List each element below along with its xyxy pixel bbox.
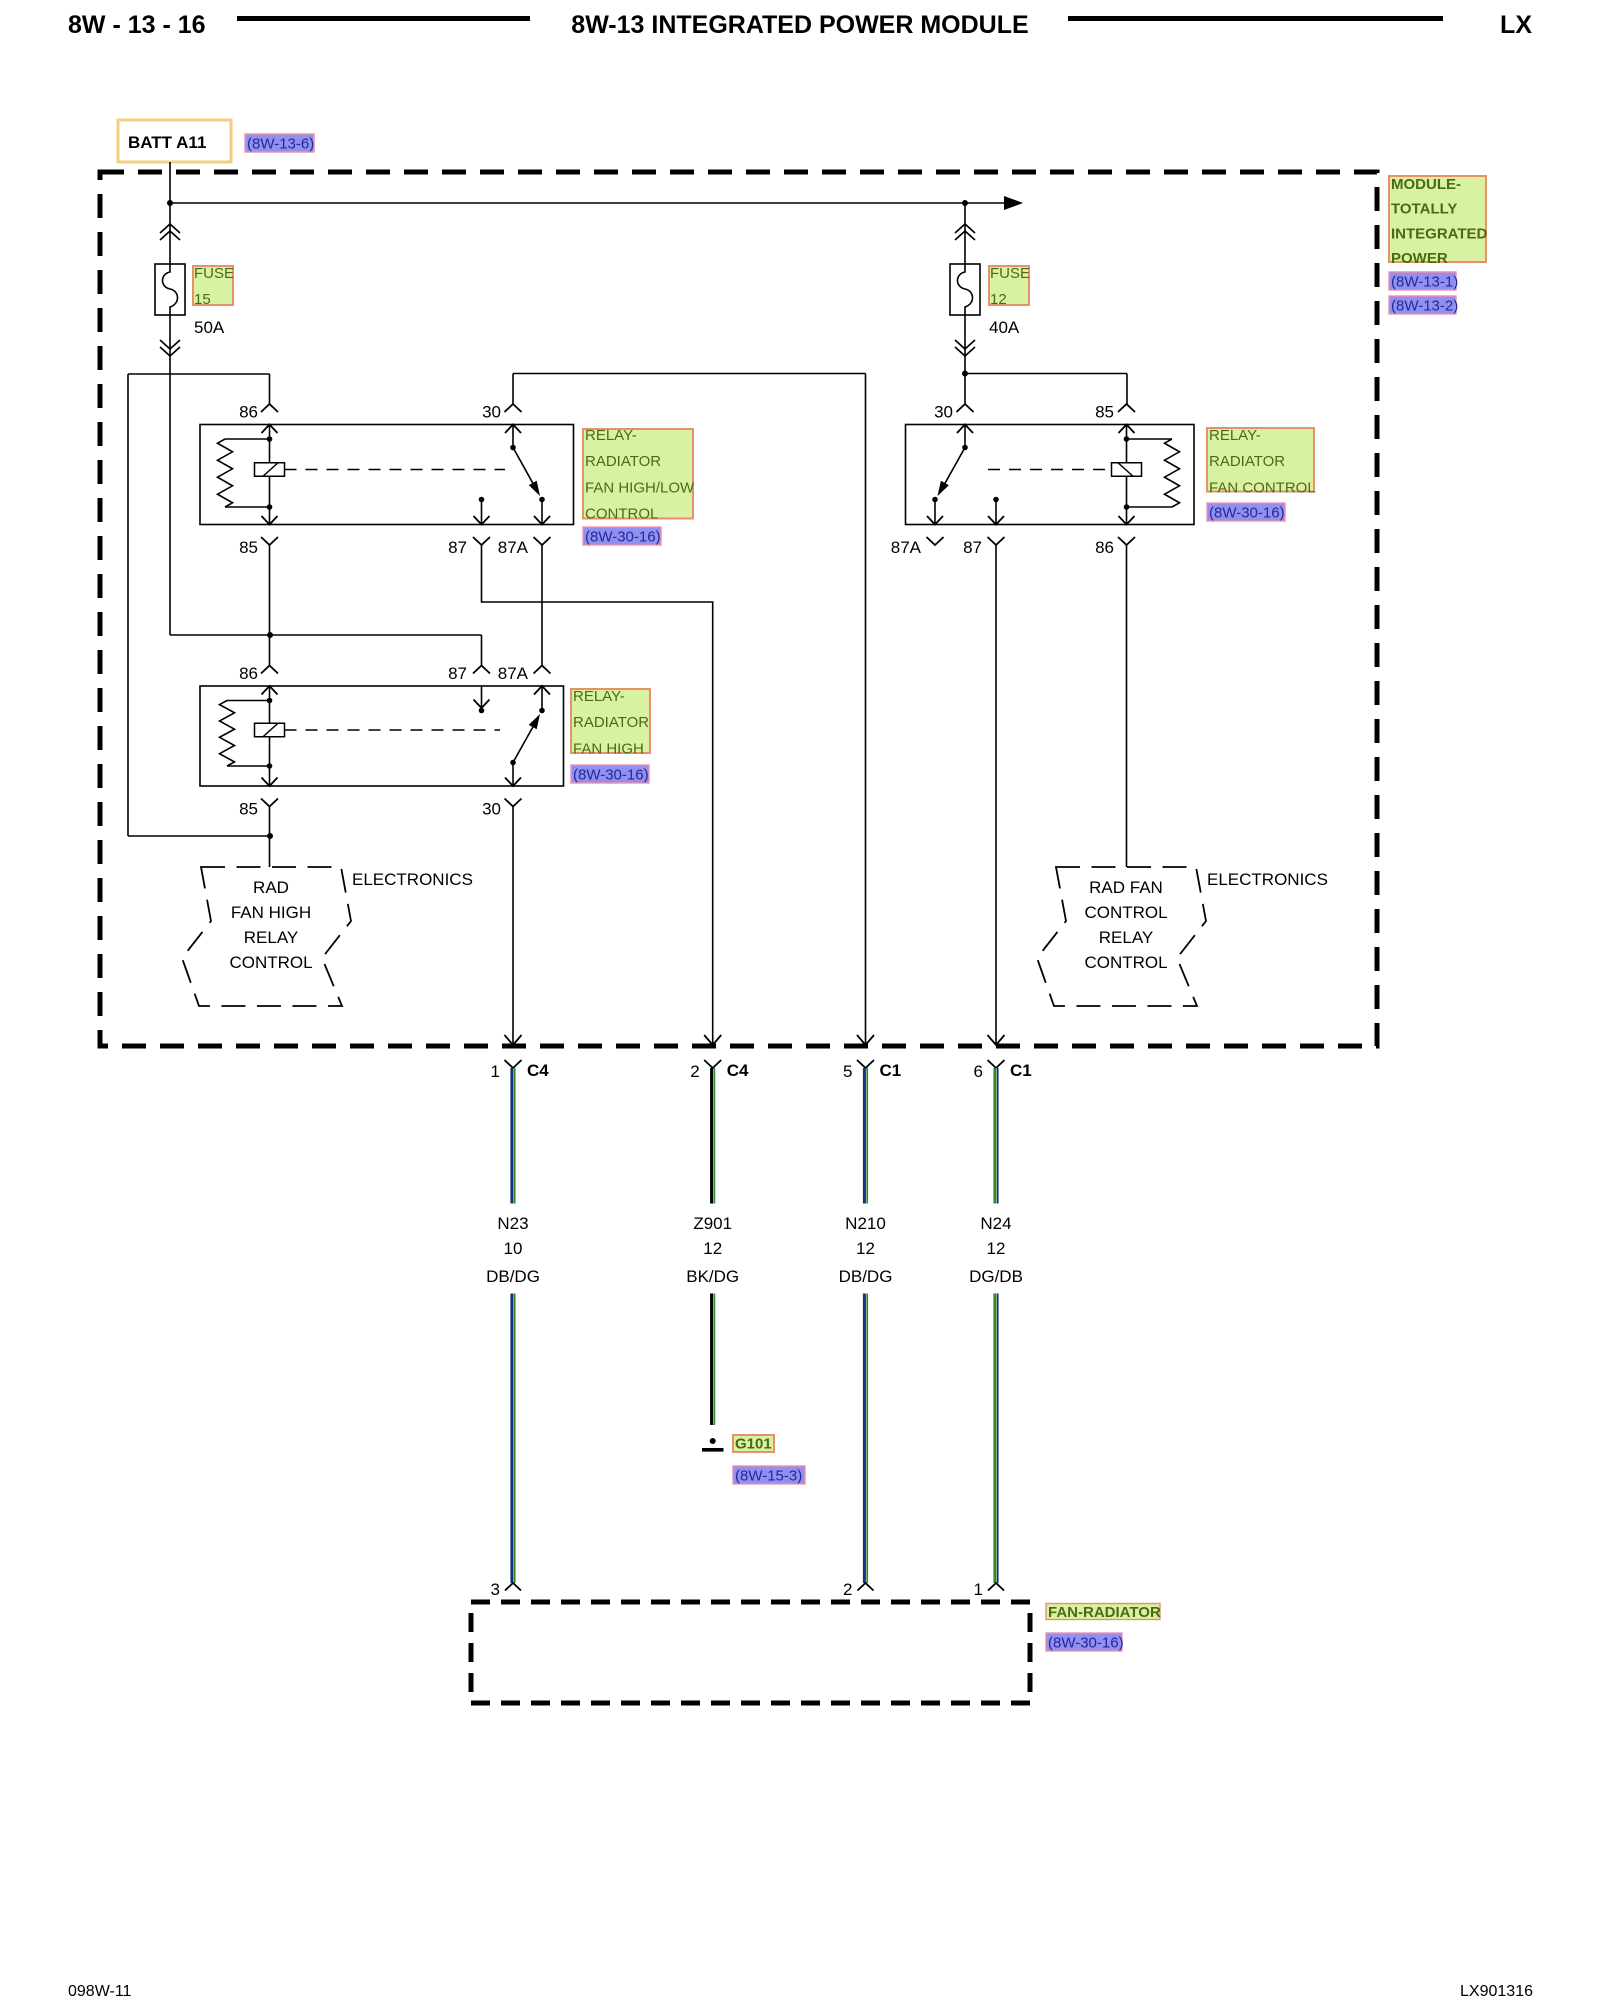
relay K1 pin 87A terminal	[534, 537, 551, 545]
svg-text:12: 12	[987, 1239, 1006, 1258]
relay K3 contact 87	[993, 497, 999, 503]
svg-text:RELAY-: RELAY-	[585, 427, 637, 444]
wire Z901 lower	[710, 1294, 713, 1426]
relay K2 pin 87 terminal	[473, 666, 490, 674]
svg-text:85: 85	[239, 538, 258, 557]
svg-text:FAN HIGH/LOW: FAN HIGH/LOW	[585, 479, 695, 496]
connector fan pin 3	[505, 1583, 521, 1591]
svg-text:RAD FAN: RAD FAN	[1089, 878, 1163, 897]
relay K1 resistor (parallel)	[225, 438, 270, 440]
label RELAY-RADIATOR FAN HIGH	[571, 689, 650, 753]
connector fan pin 1	[988, 1583, 1004, 1591]
wire relay K1 87 to connector C4-2 (Z901)	[482, 545, 713, 1045]
svg-text:86: 86	[1095, 538, 1114, 557]
svg-text:85: 85	[239, 800, 258, 819]
relay K3 switch common	[964, 425, 966, 448]
label FUSE 12	[989, 266, 1029, 305]
junction node fuse15/relay wires	[267, 632, 273, 638]
wire N210 lower	[863, 1294, 866, 1584]
svg-text:FUSE: FUSE	[194, 265, 234, 282]
svg-text:87: 87	[448, 538, 467, 557]
svg-text:CONTROL: CONTROL	[229, 953, 312, 972]
relay K1 pin 30 terminal	[505, 404, 522, 412]
svg-text:CONTROL: CONTROL	[1084, 903, 1167, 922]
svg-text:1: 1	[974, 1580, 983, 1599]
in-line connector symbol below fuse 12	[955, 347, 975, 356]
relay K3 coil	[1112, 463, 1142, 477]
svg-text:C4: C4	[727, 1061, 749, 1080]
label MODULE-TOTALLY INTEGRATED POWER	[1389, 176, 1486, 262]
svg-text:10: 10	[504, 1239, 523, 1258]
label (8W-30-16) relay K1	[583, 527, 661, 545]
svg-text:FUSE: FUSE	[990, 265, 1030, 282]
svg-text:C1: C1	[880, 1061, 902, 1080]
label (8W-13-1)	[1389, 272, 1456, 290]
relay K2 contact 87 (stub)	[481, 686, 483, 711]
svg-text:LX: LX	[1500, 11, 1532, 39]
relay K3 pin 87 terminal	[988, 537, 1005, 545]
relay K1 switch arm to 87A	[513, 448, 534, 485]
wire fuse 12 drop from bus	[964, 203, 966, 264]
svg-text:12: 12	[990, 291, 1007, 308]
wire relay K1 87A to relay K2 87A	[541, 545, 543, 666]
svg-text:TOTALLY: TOTALLY	[1391, 201, 1457, 218]
label FAN-RADIATOR	[1046, 1604, 1160, 1620]
svg-text:8W - 13 - 16: 8W - 13 - 16	[68, 11, 206, 39]
relay K3 coil-contact dashed link	[988, 469, 1112, 471]
relay K2 RADIATOR FAN HIGH - case	[200, 686, 564, 786]
relay K2 pin 30 terminal	[505, 799, 522, 807]
relay K2 pin 86 terminal	[261, 666, 278, 674]
fuse F15	[155, 264, 185, 315]
connector fan pin 2	[858, 1583, 874, 1591]
svg-text:N24: N24	[980, 1214, 1011, 1233]
in-line connector symbol above fuse 15	[160, 224, 180, 233]
svg-text:FAN HIGH: FAN HIGH	[573, 740, 644, 757]
svg-text:87: 87	[448, 664, 467, 683]
label (8W-30-16) fan	[1046, 1633, 1122, 1651]
svg-text:ELECTRONICS: ELECTRONICS	[352, 870, 473, 889]
svg-text:DB/DG: DB/DG	[486, 1267, 540, 1286]
svg-text:RELAY: RELAY	[1099, 928, 1154, 947]
battery feed box BATT A11	[118, 120, 231, 162]
svg-text:87A: 87A	[891, 538, 922, 557]
svg-text:LX901316: LX901316	[1460, 1983, 1533, 2000]
relay K3 pin 87A terminal	[927, 537, 944, 545]
svg-text:15: 15	[194, 291, 211, 308]
wire BATT A11 down to bus	[169, 162, 171, 264]
in-line connector symbol below fuse 15	[160, 347, 180, 356]
connector C1 pin 5	[857, 1060, 874, 1068]
relay K2 resistor (parallel)	[227, 700, 270, 702]
svg-text:INTEGRATED: INTEGRATED	[1391, 225, 1488, 242]
junction node bus/batt	[167, 200, 173, 206]
svg-text:POWER: POWER	[1391, 250, 1448, 267]
wire N23 lower	[510, 1294, 513, 1584]
label (8W-13-6)	[245, 134, 314, 152]
svg-text:(8W-15-3): (8W-15-3)	[735, 1468, 802, 1485]
svg-text:RADIATOR: RADIATOR	[585, 453, 661, 470]
svg-text:C1: C1	[1010, 1061, 1032, 1080]
junction node bus/fuse12	[962, 200, 968, 206]
svg-text:87A: 87A	[498, 664, 529, 683]
wire fuse15 line down to relay K2 87	[481, 635, 483, 666]
label RELAY-RADIATOR FAN HIGH/LOW CONTROL	[583, 429, 693, 519]
svg-text:ELECTRONICS: ELECTRONICS	[1207, 870, 1328, 889]
svg-text:C4: C4	[527, 1061, 549, 1080]
relay K3 pin 30 terminal	[957, 404, 974, 412]
svg-text:FAN-RADIATOR: FAN-RADIATOR	[1048, 1604, 1161, 1621]
wire Z901 12 BK/DG (C4-2 to ground) upper	[710, 1068, 713, 1204]
svg-text:FAN HIGH: FAN HIGH	[231, 903, 311, 922]
svg-text:30: 30	[482, 403, 501, 422]
svg-text:BK/DG: BK/DG	[686, 1267, 739, 1286]
svg-text:(8W-13-2): (8W-13-2)	[1391, 298, 1458, 315]
electronics block RAD FAN CONTROL RELAY CONTROL (dashed)	[1037, 867, 1206, 1006]
terminal arrow at module bottom (C1-5)	[857, 1035, 874, 1045]
svg-text:(8W-30-16): (8W-30-16)	[585, 529, 661, 546]
wire N24 12 DG/DB (C1-6 to fan 1) upper	[993, 1068, 996, 1204]
wire N23 10 DB/DG (C4-1 to fan 3) upper	[510, 1068, 513, 1204]
svg-text:12: 12	[703, 1239, 722, 1258]
svg-text:6: 6	[974, 1062, 983, 1081]
wire bus A11 horizontal	[170, 202, 1005, 204]
relay K1 pin 87 terminal	[473, 537, 490, 545]
in-line connector symbol above fuse 12	[955, 224, 975, 233]
label (8W-13-2)	[1389, 296, 1456, 314]
svg-text:CONTROL: CONTROL	[585, 506, 658, 523]
component FAN-RADIATOR (dashed box)	[471, 1602, 1030, 1703]
svg-text:RELAY-: RELAY-	[1209, 427, 1261, 444]
relay K2 contact 87A	[539, 708, 545, 714]
wire relay K2 85 to electronics	[269, 807, 271, 868]
svg-text:Z901: Z901	[693, 1214, 732, 1233]
svg-text:RAD: RAD	[253, 878, 289, 897]
svg-text:30: 30	[482, 800, 501, 819]
svg-text:50A: 50A	[194, 318, 225, 337]
relay K3 contact 87A	[932, 497, 938, 503]
label RELAY-RADIATOR FAN CONTROL	[1207, 428, 1314, 492]
svg-text:12: 12	[856, 1239, 875, 1258]
fuse F12	[950, 264, 980, 315]
wire relay K3 86 to electronics	[1126, 545, 1128, 867]
relay K1 switch common	[512, 425, 514, 448]
wire relay K1 85 to relay K2 86	[269, 545, 271, 666]
svg-text:RADIATOR: RADIATOR	[1209, 453, 1285, 470]
ground G101 symbol	[710, 1438, 716, 1444]
relay K3 pin 85 terminal	[1118, 404, 1135, 412]
svg-text:86: 86	[239, 664, 258, 683]
connector C4 pin 2	[704, 1060, 721, 1068]
svg-text:BATT A11: BATT A11	[128, 133, 206, 152]
relay K2 coil	[255, 723, 285, 737]
svg-text:(8W-30-16): (8W-30-16)	[1048, 1635, 1124, 1652]
svg-text:N23: N23	[497, 1214, 528, 1233]
svg-text:8W-13 INTEGRATED POWER MODULE: 8W-13 INTEGRATED POWER MODULE	[571, 11, 1028, 39]
svg-text:5: 5	[843, 1062, 852, 1081]
svg-text:30: 30	[934, 403, 953, 422]
svg-text:87: 87	[963, 538, 982, 557]
relay K1 coil	[255, 463, 285, 477]
module boundary - totally integrated power module (dashed)	[100, 172, 1377, 1046]
relay K2 pin 85 terminal	[261, 799, 278, 807]
relay K1 coil line	[269, 425, 271, 525]
svg-text:RELAY-: RELAY-	[573, 688, 625, 705]
relay K2 coil line	[269, 686, 271, 786]
svg-text:(8W-30-16): (8W-30-16)	[573, 767, 649, 784]
relay K1 RADIATOR FAN HIGH/LOW CONTROL - case	[200, 425, 574, 525]
relay K2 coil-contact dashed link	[285, 729, 501, 731]
svg-text:CONTROL: CONTROL	[1084, 953, 1167, 972]
svg-text:DB/DG: DB/DG	[839, 1267, 893, 1286]
label FUSE 15	[193, 266, 233, 305]
svg-text:(8W-13-1): (8W-13-1)	[1391, 274, 1458, 291]
wire N24 lower	[993, 1294, 996, 1584]
relay K1 contact 87A	[539, 497, 545, 503]
wire relay K3 87 to connector C1-6	[995, 545, 997, 1045]
svg-text:RELAY: RELAY	[244, 928, 299, 947]
junction node fuse12 output	[962, 371, 968, 377]
relay K1 coil-contact dashed link	[285, 469, 506, 471]
svg-text:MODULE-: MODULE-	[1391, 176, 1461, 193]
wire fuse12 to relay fan control coil (pin 85)	[965, 373, 1127, 375]
relay K3 switch arm to 87A	[944, 448, 965, 485]
label (8W-30-16) relay K2	[571, 765, 649, 783]
svg-text:86: 86	[239, 403, 258, 422]
svg-text:DG/DB: DG/DB	[969, 1267, 1023, 1286]
wire N210 12 DB/DG (C1-5 to fan 2) upper	[863, 1068, 866, 1204]
svg-text:3: 3	[491, 1580, 500, 1599]
relay K3 resistor (parallel)	[1127, 438, 1173, 440]
connector C4 pin 1	[505, 1060, 522, 1068]
svg-text:40A: 40A	[989, 318, 1020, 337]
label (8W-15-3)	[733, 1466, 805, 1484]
label G101	[733, 1435, 774, 1452]
svg-text:RADIATOR: RADIATOR	[573, 714, 649, 731]
relay K3 RADIATOR FAN CONTROL - case	[906, 425, 1195, 525]
relay K3 coil line	[1126, 425, 1128, 525]
svg-text:2: 2	[843, 1580, 852, 1599]
relay K3 pin 86 terminal	[1118, 537, 1135, 545]
relay K1 pin 86 terminal	[261, 404, 278, 412]
relay K1 contact 87	[479, 497, 485, 503]
relay K2 switch arm (pivot at 30)	[510, 760, 516, 766]
bus arrow (continues)	[1004, 196, 1023, 210]
connector C1 pin 6	[988, 1060, 1005, 1068]
relay K2 pin 87A terminal	[534, 666, 551, 674]
svg-text:85: 85	[1095, 403, 1114, 422]
electronics block RAD FAN HIGH RELAY CONTROL (dashed)	[182, 867, 351, 1006]
wire fuse 15 output to relay fan-high coil/contact feed	[169, 315, 171, 635]
wire relay1 coil 86 feed from rad-fan-high-relay-control net	[128, 373, 270, 375]
wire relay1 pin30 to connector C1-5 feed (N210 bus)	[513, 373, 866, 375]
label (8W-30-16) relay K3	[1207, 503, 1285, 521]
svg-text:(8W-13-6): (8W-13-6)	[247, 136, 314, 153]
relay K1 pin 85 terminal	[261, 537, 278, 545]
svg-text:N210: N210	[845, 1214, 886, 1233]
svg-text:1: 1	[491, 1062, 500, 1081]
svg-text:87A: 87A	[498, 538, 529, 557]
svg-text:FAN CONTROL: FAN CONTROL	[1209, 479, 1316, 496]
wire relay K2 30 to connector C4-1	[512, 807, 514, 1046]
svg-text:2: 2	[690, 1062, 699, 1081]
svg-text:G101: G101	[735, 1436, 772, 1453]
wire fuse 12 output	[964, 315, 966, 404]
svg-text:098W-11: 098W-11	[68, 1983, 132, 2000]
junction node relay2-85/electronics	[267, 833, 273, 839]
svg-text:(8W-30-16): (8W-30-16)	[1209, 505, 1285, 522]
